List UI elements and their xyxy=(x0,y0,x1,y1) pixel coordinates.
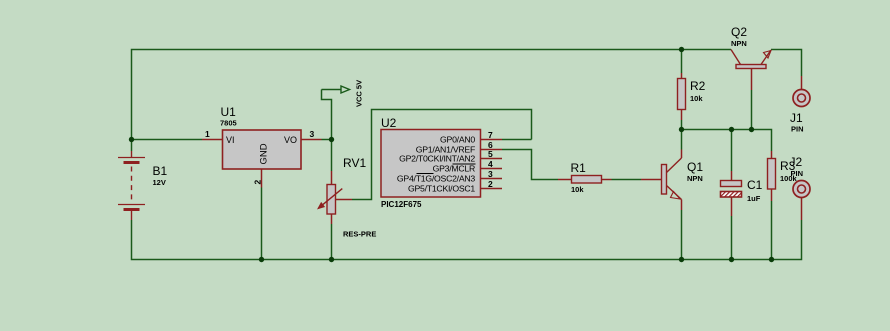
svg-text:U2: U2 xyxy=(381,116,397,130)
node dot mid bus Q2 base xyxy=(749,127,754,132)
U1 pin 1 stub xyxy=(202,139,223,141)
connector J2 xyxy=(790,155,811,220)
svg-text:3: 3 xyxy=(488,169,493,179)
VCC terminal line xyxy=(322,89,342,91)
svg-text:NPN: NPN xyxy=(731,39,747,48)
U2 body box xyxy=(381,130,481,198)
svg-text:PIN: PIN xyxy=(791,125,804,134)
transistor Q2 xyxy=(731,25,771,90)
B1 bottom pin stub xyxy=(131,211,133,220)
C1 bottom pin stub xyxy=(731,197,733,216)
Q1 emitter arrowhead xyxy=(671,192,681,200)
node dot ground R3 xyxy=(769,257,774,262)
potentiometer RV1 xyxy=(318,156,377,239)
T1G overline xyxy=(417,173,434,175)
wire U1 pin3 to node xyxy=(322,139,332,141)
B1 second cell positive plate xyxy=(118,204,145,206)
Q2 base bar xyxy=(736,65,766,69)
svg-text:2: 2 xyxy=(488,179,493,189)
svg-text:RV1: RV1 xyxy=(343,156,366,170)
wire RV1 bottom to ground xyxy=(331,224,333,260)
svg-text:PIC12F675: PIC12F675 xyxy=(381,200,422,209)
RV1 top pin stub xyxy=(331,171,333,184)
svg-text:NPN: NPN xyxy=(687,174,703,183)
svg-text:C1: C1 xyxy=(747,178,763,192)
svg-text:R1: R1 xyxy=(571,161,587,175)
wire node to RV1 xyxy=(331,140,333,172)
svg-text:7805: 7805 xyxy=(220,119,237,128)
wire R1 to Q1 base xyxy=(612,179,642,181)
R2 body xyxy=(678,79,686,110)
U2 pin 2 stub xyxy=(481,188,503,190)
wire Q2 emitter to J1 xyxy=(771,50,802,77)
Q1 emitter diagonal xyxy=(667,186,682,200)
transistor Q1 xyxy=(641,150,703,211)
J1 outer ring xyxy=(793,90,810,107)
J2 pin stub xyxy=(801,198,803,221)
svg-text:GND: GND xyxy=(259,143,270,164)
Q1 base bar xyxy=(662,165,667,195)
U2 pin 7 stub xyxy=(481,139,503,141)
wire R2 top xyxy=(681,50,683,74)
svg-text:J1: J1 xyxy=(790,111,803,125)
svg-text:GP3/MCLR: GP3/MCLR xyxy=(433,164,475,174)
J1 inner circle xyxy=(798,94,806,102)
J2 outer ring xyxy=(793,181,810,198)
svg-text:RES-PRE: RES-PRE xyxy=(343,230,376,239)
RV1 wiper arrowhead xyxy=(318,203,325,209)
Q2 emitter diagonal xyxy=(761,50,771,65)
R1 body xyxy=(572,176,602,184)
node dot mid bus C1 xyxy=(729,127,734,132)
RV1 body xyxy=(327,185,336,215)
wire R2 bottom xyxy=(681,120,683,130)
B1 positive plate xyxy=(118,157,145,159)
Q1 emitter pin stub xyxy=(681,200,683,211)
R2 bottom pin stub xyxy=(681,110,683,121)
RV1 bottom pin stub xyxy=(331,214,333,224)
R2 top pin stub xyxy=(681,73,683,79)
VCC 5V power terminal xyxy=(322,86,350,93)
R3 body xyxy=(768,159,776,190)
wire U2 pin6 to R1 xyxy=(502,150,558,180)
svg-text:VI: VI xyxy=(226,135,235,145)
B1 negative plate xyxy=(124,161,140,164)
Q2 emitter arrowhead xyxy=(764,51,772,59)
wire VCC stem xyxy=(322,90,332,140)
microcontroller U2 PIC12F675 xyxy=(381,116,502,209)
svg-text:PIN: PIN xyxy=(791,169,804,178)
svg-text:7: 7 xyxy=(488,130,493,140)
B1 second cell negative plate xyxy=(124,208,140,211)
svg-text:4: 4 xyxy=(488,159,493,169)
svg-text:VCC 5V: VCC 5V xyxy=(355,80,364,107)
Q1 base pin stub xyxy=(641,179,662,181)
J1 pin stub xyxy=(801,76,803,89)
U1 body box xyxy=(223,130,302,169)
R1 right pin stub xyxy=(602,179,612,181)
C1 positive plate xyxy=(721,181,742,187)
node dot top bus R2 xyxy=(679,47,684,52)
svg-text:Q1: Q1 xyxy=(687,160,703,174)
U2 pin 4 stub xyxy=(481,168,503,170)
node dot battery / U1 pin1 xyxy=(129,137,134,142)
wire Q1 emitter to ground xyxy=(681,210,683,260)
B1 top pin stub xyxy=(131,151,133,157)
RV1 wiper diagonal xyxy=(318,189,342,209)
U2 pin 6 stub xyxy=(481,149,503,151)
C1 top pin stub xyxy=(731,171,733,181)
node dot mid bus R2/Q1 xyxy=(679,127,684,132)
wire R3 bottom xyxy=(771,201,773,260)
wire C1 top xyxy=(731,130,733,172)
svg-text:5: 5 xyxy=(488,149,493,159)
wire battery bottom to ground bus xyxy=(132,220,263,260)
resistor R1 xyxy=(558,161,612,194)
svg-text:10k: 10k xyxy=(690,94,703,103)
wire mid bus xyxy=(682,130,772,152)
Q1 collector diagonal xyxy=(667,158,682,173)
node dot U1 pin3 / RV1 xyxy=(329,137,334,142)
U2 pin 3 stub xyxy=(481,178,503,180)
resistor R2 xyxy=(678,73,706,120)
connector J1 xyxy=(790,76,810,134)
VCC terminal arrowhead xyxy=(341,86,350,93)
svg-text:10k: 10k xyxy=(571,185,584,194)
svg-text:Q2: Q2 xyxy=(731,25,747,39)
node dot ground C1 xyxy=(729,257,734,262)
wire U1 pin1 xyxy=(132,139,203,141)
svg-text:GP2/T0CKI/INT/AN2: GP2/T0CKI/INT/AN2 xyxy=(399,154,475,164)
resistor R3 xyxy=(768,151,798,201)
wire battery top stub xyxy=(131,140,133,152)
wire C1 bottom xyxy=(731,216,733,260)
wire Q1 collector xyxy=(681,130,683,150)
wire Q2 base xyxy=(751,90,753,130)
wire RV1 wiper to U2 pin7 xyxy=(352,110,532,200)
battery B1 xyxy=(118,151,168,220)
wire top 12V bus xyxy=(132,50,732,140)
C1 negative hatched plate xyxy=(721,192,742,198)
wire U2 pin7 stub xyxy=(502,139,532,141)
node dot ground RV1 xyxy=(329,257,334,262)
svg-text:12V: 12V xyxy=(153,178,166,187)
svg-text:VO: VO xyxy=(284,135,297,145)
Q2 base pin stub xyxy=(751,69,753,90)
svg-text:GP5/T1CKI/OSC1: GP5/T1CKI/OSC1 xyxy=(408,184,475,194)
svg-text:GP4/T1G/OSC2/AN3: GP4/T1G/OSC2/AN3 xyxy=(397,174,475,184)
RV1 wiper pin stub xyxy=(336,199,353,201)
svg-text:GP0/AN0: GP0/AN0 xyxy=(440,135,475,145)
svg-text:1: 1 xyxy=(205,129,210,139)
J2 inner circle xyxy=(798,185,806,193)
U2 pin 5 stub xyxy=(481,158,503,160)
MCLR overline xyxy=(453,163,476,165)
svg-text:3: 3 xyxy=(310,129,315,139)
B1 dashed link xyxy=(131,167,133,201)
node dot ground Q1 xyxy=(679,257,684,262)
wire U1 pin2 to ground xyxy=(261,188,263,260)
R3 top pin stub xyxy=(771,151,773,158)
svg-text:J2: J2 xyxy=(790,155,803,169)
regulator U1 7805 xyxy=(202,105,322,188)
wire ground bus xyxy=(262,220,802,260)
Q1 collector pin stub xyxy=(681,150,683,159)
U1 pin 2 stub xyxy=(261,170,263,188)
Q2 collector diagonal xyxy=(731,50,741,65)
node dot ground U1 xyxy=(259,257,264,262)
capacitor C1 xyxy=(721,171,763,216)
svg-text:2: 2 xyxy=(253,180,263,185)
svg-text:U1: U1 xyxy=(221,105,237,119)
svg-text:B1: B1 xyxy=(153,164,168,178)
svg-text:1uF: 1uF xyxy=(747,194,761,203)
svg-text:R2: R2 xyxy=(690,79,706,93)
R3 bottom pin stub xyxy=(771,189,773,201)
R1 left pin stub xyxy=(558,179,572,181)
U1 pin 3 stub xyxy=(301,139,322,141)
